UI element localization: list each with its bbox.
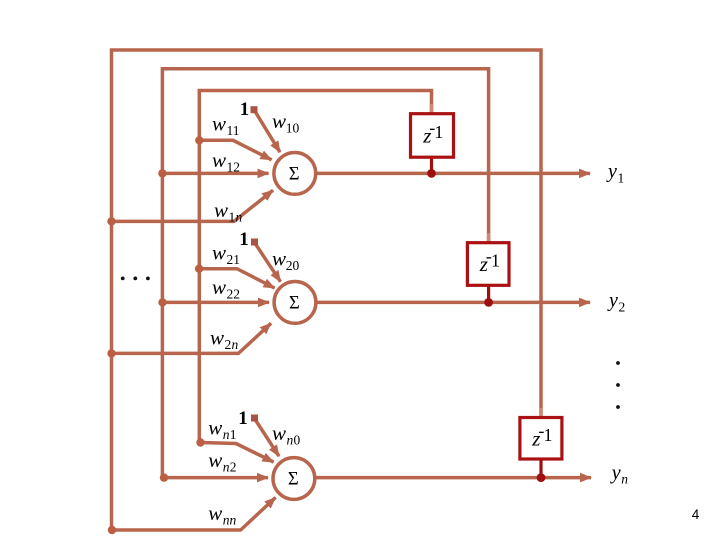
svg-text:w: w xyxy=(208,416,222,440)
svg-text:w: w xyxy=(272,247,286,271)
wire wn2 input xyxy=(164,476,268,480)
wire output y2 xyxy=(315,301,590,305)
svg-text:nn: nn xyxy=(223,513,237,528)
svg-text:1: 1 xyxy=(544,425,553,445)
svg-text:1: 1 xyxy=(238,408,248,429)
wire w11 input xyxy=(199,140,271,160)
svg-text:1: 1 xyxy=(230,427,237,442)
svg-text:n: n xyxy=(287,433,294,448)
node w2n junction xyxy=(107,349,115,357)
svg-text:Σ: Σ xyxy=(288,470,299,490)
svg-text:y: y xyxy=(607,290,618,312)
svg-text:12: 12 xyxy=(227,159,241,174)
svg-text:n: n xyxy=(223,460,230,475)
delay z^-1 unit 1 xyxy=(411,114,454,158)
wire bias 1 row 3 xyxy=(255,419,280,457)
svg-text:y: y xyxy=(610,462,621,484)
svg-text:1: 1 xyxy=(491,251,500,271)
node w22 junction xyxy=(158,298,166,306)
svg-text:1: 1 xyxy=(239,229,249,250)
summation unit row 3 xyxy=(273,458,315,500)
wire feedback loop 2 top line xyxy=(162,69,488,478)
wire wnn input xyxy=(112,498,276,531)
svg-text:w: w xyxy=(212,148,226,172)
wire bias 1 row 2 xyxy=(255,243,281,282)
svg-text:11: 11 xyxy=(227,123,240,138)
svg-text:1: 1 xyxy=(240,99,250,120)
delay z^-1 unit 1 stub xyxy=(430,158,433,173)
svg-text:22: 22 xyxy=(227,287,241,302)
node bias dot row 3 xyxy=(251,415,258,422)
wire w2n input xyxy=(112,323,272,353)
svg-text:1: 1 xyxy=(434,122,443,142)
svg-text:n: n xyxy=(223,427,230,442)
summation unit row 2 xyxy=(274,282,316,324)
svg-text:w: w xyxy=(212,241,226,265)
node w21 junction xyxy=(195,265,203,273)
svg-text:w: w xyxy=(212,111,226,135)
svg-text:w: w xyxy=(210,326,224,350)
svg-text:w: w xyxy=(208,448,222,472)
node w1n junction xyxy=(107,217,115,225)
wire w22 input xyxy=(163,301,270,305)
wire w1n input xyxy=(112,190,274,221)
delay z^-1 unit 3 stub xyxy=(539,459,542,478)
svg-text:1: 1 xyxy=(229,210,236,225)
svg-text:y: y xyxy=(606,161,617,183)
svg-text:2: 2 xyxy=(225,337,232,352)
node wnn junction xyxy=(108,526,116,534)
wire output y1 xyxy=(314,172,590,176)
svg-text:n: n xyxy=(236,210,243,225)
node wn1 junction xyxy=(196,438,204,446)
svg-text:w: w xyxy=(214,198,228,222)
svg-text:21: 21 xyxy=(227,252,241,267)
node ellipsis right xyxy=(616,361,620,365)
wire wn1 input xyxy=(201,443,274,463)
svg-text:w: w xyxy=(212,275,226,299)
node bias dot row 1 xyxy=(251,106,258,113)
svg-text:w: w xyxy=(272,109,286,133)
delay z^-1 unit 2 xyxy=(467,243,509,286)
wire light stub above box 3 xyxy=(539,408,543,416)
delay z^-1 unit 2 stub xyxy=(487,286,490,303)
svg-text:2: 2 xyxy=(619,300,626,315)
wire w12 input xyxy=(162,172,268,176)
wire w21 input xyxy=(199,269,274,288)
svg-text:10: 10 xyxy=(286,121,300,136)
svg-text:Σ: Σ xyxy=(289,294,300,314)
wire feedback loop 3 top line xyxy=(112,50,542,530)
svg-text:4: 4 xyxy=(692,507,700,522)
svg-text:1: 1 xyxy=(618,171,625,186)
node w12 junction xyxy=(158,169,166,177)
svg-text:n: n xyxy=(232,337,239,352)
delay z^-1 unit 3 xyxy=(520,418,562,460)
wire output yn xyxy=(313,476,591,480)
svg-text:Σ: Σ xyxy=(289,165,300,185)
node wn2 junction xyxy=(160,473,168,481)
svg-text:n: n xyxy=(621,472,628,487)
svg-text:w: w xyxy=(208,501,222,525)
svg-text:2: 2 xyxy=(230,460,237,475)
svg-text:w: w xyxy=(272,421,286,445)
svg-text:20: 20 xyxy=(286,258,300,273)
node bias dot row 2 xyxy=(251,239,258,246)
node ellipsis left xyxy=(121,277,125,281)
wire feedback loop 1 top line xyxy=(199,91,431,443)
node w11 junction xyxy=(195,136,203,144)
wire light stub above box 2 xyxy=(487,233,491,242)
wire bias 1 row 1 xyxy=(255,111,281,153)
wire light stub above box 1 xyxy=(430,104,434,113)
summation unit row 1 xyxy=(274,153,316,195)
svg-text:0: 0 xyxy=(294,433,301,448)
